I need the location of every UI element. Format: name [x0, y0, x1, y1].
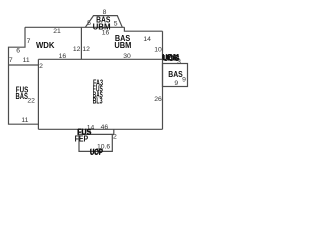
- svg-text:3: 3: [177, 58, 181, 65]
- left box top: [9, 64, 39, 66]
- svg-text:10: 10: [154, 46, 162, 53]
- bottom connector: [113, 129, 115, 134]
- svg-text:22: 22: [27, 98, 35, 105]
- svg-text:6: 6: [16, 48, 20, 55]
- svg-text:11: 11: [23, 57, 30, 64]
- svg-text:BAS: BAS: [168, 70, 183, 79]
- svg-text:16: 16: [102, 30, 110, 37]
- right BAS box: [163, 64, 188, 87]
- svg-text:16: 16: [59, 53, 67, 60]
- divider 12/12: [80, 27, 82, 59]
- svg-text:14: 14: [143, 36, 151, 43]
- svg-text:46: 46: [101, 124, 109, 131]
- svg-text:12: 12: [82, 46, 90, 53]
- svg-text:FEP: FEP: [75, 134, 89, 143]
- svg-text:7: 7: [9, 57, 13, 64]
- svg-text:UBM: UBM: [114, 41, 131, 50]
- svg-text:9: 9: [174, 80, 178, 87]
- right edge: [162, 31, 164, 129]
- svg-text:2: 2: [39, 63, 43, 70]
- svg-text:26: 26: [154, 96, 162, 103]
- main bottom edge: [38, 128, 162, 130]
- WDK left steps: [9, 27, 39, 124]
- svg-text:5: 5: [87, 20, 91, 27]
- svg-text:BL3: BL3: [93, 97, 103, 106]
- svg-text:2: 2: [113, 134, 117, 141]
- svg-text:7: 7: [27, 38, 31, 45]
- svg-text:5: 5: [114, 20, 118, 27]
- svg-text:WDK: WDK: [36, 41, 55, 50]
- svg-text:21: 21: [53, 28, 61, 35]
- main top edge: [38, 58, 162, 60]
- wire top edge WDK/bay bottom: [25, 26, 124, 28]
- svg-text:12: 12: [73, 46, 81, 53]
- svg-text:UOP: UOP: [90, 147, 103, 156]
- svg-text:9: 9: [182, 77, 186, 84]
- step down to middle box top: [124, 27, 162, 31]
- FEP/UOP box: [79, 134, 114, 151]
- svg-text:BAS: BAS: [15, 92, 28, 101]
- svg-text:11: 11: [21, 117, 28, 124]
- svg-text:30: 30: [123, 53, 131, 60]
- main left edge: [37, 59, 39, 129]
- bay window trapezoid: [85, 16, 122, 28]
